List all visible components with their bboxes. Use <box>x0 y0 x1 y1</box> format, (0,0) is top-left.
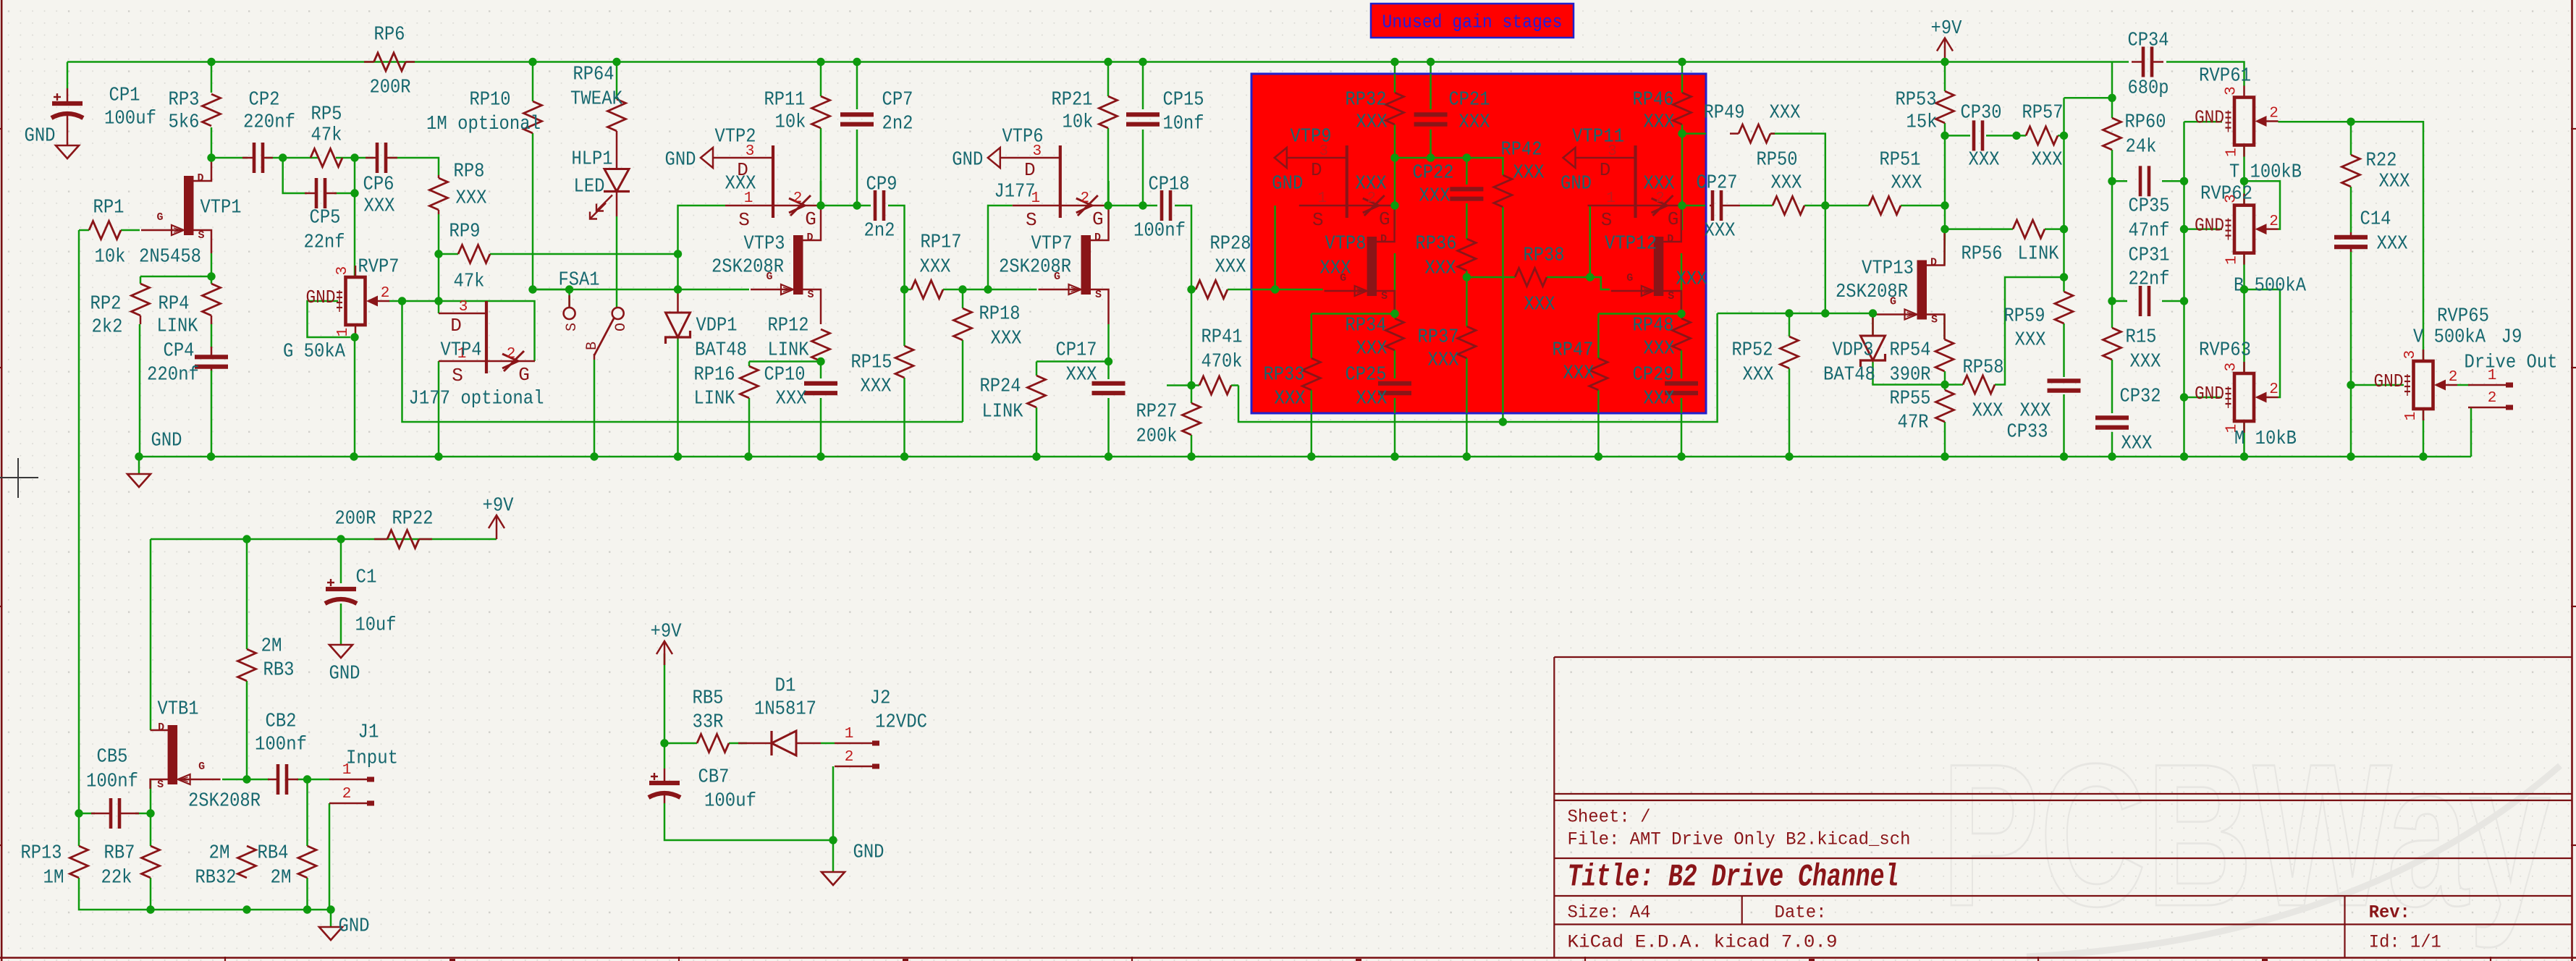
potentiometer RVP7 <box>306 266 390 336</box>
svg-text:RP46: RP46 <box>1633 89 1674 111</box>
svg-text:D: D <box>1094 232 1101 244</box>
svg-text:VTP7: VTP7 <box>1031 233 1073 255</box>
label J1 <box>346 721 398 769</box>
wire RB7 top <box>150 813 152 846</box>
svg-text:CP33: CP33 <box>2007 421 2048 443</box>
svg-text:S: S <box>1095 289 1102 301</box>
resistor RP59 <box>2055 292 2073 323</box>
label CP34 <box>2128 30 2169 99</box>
svg-text:XXX: XXX <box>1676 268 1707 290</box>
wire row400 a <box>533 289 678 291</box>
wire RP15 bottom <box>903 378 905 457</box>
wire VTP12 S down <box>1681 253 1683 314</box>
label CP5 <box>304 207 345 253</box>
svg-text:CB7: CB7 <box>698 766 730 788</box>
transistor VTP2 <box>665 143 822 231</box>
svg-text:XXX: XXX <box>1644 173 1675 195</box>
label RP50 <box>1757 149 1802 194</box>
svg-text:XXX: XXX <box>725 173 756 195</box>
connector J2 <box>835 726 879 766</box>
svg-text:1M optional: 1M optional <box>426 114 541 135</box>
svg-text:XXX: XXX <box>991 328 1022 350</box>
wire RB7 bottom <box>150 878 152 910</box>
svg-text:15k: 15k <box>1906 111 1938 133</box>
svg-text:RP49: RP49 <box>1704 102 1745 124</box>
wire VTP11 S loop <box>1589 206 1592 277</box>
svg-text:RP53: RP53 <box>1896 89 1937 111</box>
svg-text:GND: GND <box>339 915 370 937</box>
wire VTP3 D join <box>820 181 822 206</box>
wire RP33 bottom <box>1311 390 1313 457</box>
svg-text:5k6: 5k6 <box>169 111 200 133</box>
potentiometer RVP62 <box>2195 194 2279 265</box>
label VTP1 <box>139 197 242 268</box>
svg-text:RP64: RP64 <box>573 64 615 85</box>
resistor RP27 <box>1183 403 1201 435</box>
svg-text:2SK208R: 2SK208R <box>188 790 261 812</box>
resistor R15 <box>2103 328 2121 360</box>
wire CP33 bottom <box>2063 394 2065 457</box>
wire VTP6 S loop <box>988 206 1013 289</box>
wire CP15 bottom <box>1142 130 1144 206</box>
transistor VTP6 <box>952 143 1109 231</box>
resistor RB4 <box>298 846 316 878</box>
label D1 <box>754 675 816 720</box>
capacitor CP9 <box>875 190 884 221</box>
wire RP10 bottom <box>532 133 534 289</box>
capacitor CP4 <box>195 347 228 371</box>
wire RVP62 pin3 <box>2243 181 2245 205</box>
resistor RP55 <box>1936 390 1954 422</box>
wire RP11 top <box>820 62 822 97</box>
label J2 <box>870 687 928 733</box>
svg-text:390R: 390R <box>1890 364 1931 386</box>
wire second bus right <box>1238 313 1718 422</box>
svg-text:G: G <box>156 211 163 224</box>
svg-text:Size: A4: Size: A4 <box>1568 902 1651 923</box>
svg-text:2: 2 <box>2269 213 2279 230</box>
wire CP32 bottom <box>2111 432 2113 457</box>
wire VTP4 D drop <box>438 301 440 313</box>
label CB5 <box>86 746 138 792</box>
wire col2522 <box>1825 206 1827 313</box>
wire RP15 top <box>903 289 905 346</box>
capacitor CP22 <box>1450 189 1483 198</box>
svg-text:RP9: RP9 <box>449 221 481 242</box>
wire RP52 bottom <box>1789 368 1791 457</box>
net label GND J1 <box>339 915 370 937</box>
wire CP22 to RP36 <box>1466 203 1468 239</box>
svg-text:D: D <box>1667 233 1673 245</box>
resistor RP15 <box>895 346 913 378</box>
capacitor CP7 <box>840 114 874 124</box>
wire RP42 down <box>1502 207 1504 422</box>
wire CP17 top <box>1107 362 1110 380</box>
title block text Sheet <box>1568 807 1651 828</box>
label VDP3 <box>1823 339 1875 386</box>
sheet center marker <box>0 458 38 498</box>
label CB7 <box>698 766 757 812</box>
svg-text:2: 2 <box>793 190 803 207</box>
wire RP1 left <box>79 229 89 232</box>
svg-text:D: D <box>1600 159 1611 181</box>
title block text File <box>1568 829 1911 850</box>
label CP4 <box>147 340 199 386</box>
svg-text:1: 1 <box>2224 148 2241 157</box>
svg-text:XXX: XXX <box>1644 111 1675 133</box>
net GND label <box>25 125 56 147</box>
label R15 <box>2126 326 2161 373</box>
wire CP25 bottom <box>1394 398 1396 457</box>
svg-text:CB5: CB5 <box>97 746 128 768</box>
capacitor CP6 <box>366 143 397 173</box>
svg-text:XXX: XXX <box>2121 433 2153 454</box>
wire RP27 bottom <box>1191 435 1193 457</box>
wires inside box <box>1251 74 1706 413</box>
svg-text:G 50kA: G 50kA <box>283 341 346 363</box>
svg-text:+9V: +9V <box>651 621 683 643</box>
capacitor CP30 <box>1974 120 1982 151</box>
svg-text:RP51: RP51 <box>1880 149 1921 171</box>
svg-text:XXX: XXX <box>2015 329 2046 351</box>
wire RP2 branch <box>140 276 211 278</box>
svg-text:Drive Out: Drive Out <box>2465 352 2558 373</box>
svg-text:RP34: RP34 <box>1346 315 1387 336</box>
wire RP41 lead r <box>1231 384 1238 386</box>
svg-text:XXX: XXX <box>1320 258 1351 279</box>
svg-text:XXX: XXX <box>1972 400 2003 422</box>
svg-text:XXX: XXX <box>1513 162 1545 184</box>
wire R22 to C14 <box>2350 187 2352 232</box>
svg-text:S: S <box>1931 314 1938 326</box>
svg-text:1: 1 <box>1317 190 1327 207</box>
svg-text:VTP4: VTP4 <box>441 339 482 361</box>
label FSA1 <box>559 269 600 291</box>
label RP10 <box>426 89 541 135</box>
power symbol +9V <box>1931 18 1963 62</box>
wire col2918 mid <box>2111 181 2113 301</box>
label RP18 <box>979 303 1022 350</box>
wire RP56 right <box>2045 228 2064 230</box>
svg-text:22nf: 22nf <box>304 232 345 253</box>
wire FSA1 B down <box>594 360 596 457</box>
svg-text:RB7: RB7 <box>104 842 135 864</box>
label RP13 <box>21 842 64 889</box>
svg-text:22k: 22k <box>101 867 132 889</box>
capacitor CP33 <box>2048 381 2081 390</box>
capacitor CB2 <box>268 764 298 795</box>
resistor RP36 <box>1458 239 1476 271</box>
wire RVP63 mount <box>2184 397 2223 399</box>
label CP33 <box>2007 400 2051 443</box>
svg-text:CP7: CP7 <box>882 89 913 111</box>
label CP29 <box>1633 364 1675 410</box>
svg-text:RP21: RP21 <box>1052 89 1093 111</box>
svg-text:D: D <box>1024 159 1036 181</box>
wire CP4 bottom <box>211 370 213 457</box>
svg-text:1N5817: 1N5817 <box>754 698 816 720</box>
svg-text:10k: 10k <box>1063 111 1094 133</box>
svg-text:XXX: XXX <box>1771 172 1802 194</box>
svg-text:RP15: RP15 <box>851 352 892 373</box>
highlight box unused gain stages <box>1251 74 1706 413</box>
svg-text:XXX: XXX <box>1891 172 1922 194</box>
svg-text:File: AMT Drive Only B2.kicad_: File: AMT Drive Only B2.kicad_sch <box>1568 829 1911 850</box>
svg-text:XXX: XXX <box>1356 338 1388 360</box>
resistor RB5 <box>697 734 729 753</box>
wire RP3 bottom <box>211 127 213 158</box>
label RP1 <box>93 197 126 268</box>
wire RB4 top <box>306 779 308 846</box>
svg-text:B: B <box>584 342 601 350</box>
label HLP1 <box>572 148 613 198</box>
wire CP5 right <box>334 192 355 195</box>
wire RP60 bottom <box>2111 150 2113 181</box>
svg-text:GND: GND <box>306 287 336 308</box>
svg-text:RP37: RP37 <box>1418 326 1459 348</box>
capacitor CP10 <box>804 384 837 393</box>
svg-text:1M: 1M <box>43 867 64 889</box>
svg-text:1: 1 <box>2403 412 2420 421</box>
svg-text:RVP7: RVP7 <box>358 256 400 278</box>
svg-text:XXX: XXX <box>1356 388 1388 410</box>
wire RP12 to CP10 <box>820 362 822 379</box>
label RP2 <box>90 293 123 338</box>
svg-text:+9V: +9V <box>483 495 515 517</box>
wire bottom bus <box>79 878 331 910</box>
wire RP5-CP6 gap <box>336 157 373 159</box>
wire CP29 bottom <box>1681 398 1683 457</box>
svg-text:XXX: XXX <box>1215 256 1246 278</box>
wire J2 pin2 down <box>832 766 835 840</box>
svg-text:XXX: XXX <box>1969 149 2000 171</box>
transistor VTP3 <box>751 206 821 324</box>
svg-text:GND: GND <box>665 149 696 171</box>
label RP27 <box>1136 401 1178 447</box>
wire R22 top <box>2350 122 2352 155</box>
svg-text:HLP1: HLP1 <box>572 148 613 170</box>
wire RP21 top <box>1107 62 1110 97</box>
wire RP34 to CP25 <box>1394 350 1396 378</box>
svg-text:RP52: RP52 <box>1732 339 1773 361</box>
ground GND J2 <box>822 872 845 885</box>
wire RP51 left <box>1825 205 1869 207</box>
svg-text:KiCad E.D.A. kicad 7.0.9: KiCad E.D.A. kicad 7.0.9 <box>1568 932 1838 953</box>
resistor RP50 <box>1773 197 1804 215</box>
wire RP24 bottom <box>1036 407 1038 457</box>
resistor RB3 <box>238 649 256 681</box>
svg-text:VTP8: VTP8 <box>1325 233 1367 255</box>
wire RVP61 mount <box>2184 121 2223 123</box>
title block text KiCad <box>1568 932 1838 953</box>
wire CP30-RP57 <box>1986 135 2026 137</box>
wire RP33 branch <box>1312 313 1395 315</box>
label CP25 <box>1346 364 1388 410</box>
svg-text:200R: 200R <box>335 508 376 530</box>
svg-text:2n2: 2n2 <box>864 220 895 242</box>
wire B to M wiper <box>2245 289 2281 397</box>
svg-text:GND: GND <box>329 663 360 685</box>
label VTP7 <box>999 233 1073 278</box>
wire CP27-RP50 <box>1740 205 1773 207</box>
wire CB2 left <box>247 779 269 781</box>
resistor RP8 <box>430 175 448 214</box>
resistor RP21 <box>1099 96 1118 128</box>
resistor RP4 <box>203 284 221 324</box>
svg-text:2: 2 <box>2269 106 2279 122</box>
svg-text:CP6: CP6 <box>363 174 394 195</box>
resistor RP28 <box>1196 281 1228 299</box>
wire J9 pin2 down <box>2470 407 2472 457</box>
label VTP8 <box>1320 233 1367 279</box>
label RVP62 <box>2200 183 2307 297</box>
wire CP7 top <box>856 62 858 110</box>
resistor RP47 <box>1589 358 1608 390</box>
wire col2852 mid <box>2063 135 2065 277</box>
svg-text:2SK208R: 2SK208R <box>1836 281 1908 303</box>
wire RP24 top <box>1036 362 1038 376</box>
label R22 <box>2366 150 2410 192</box>
capacitor CP17 <box>1092 384 1126 393</box>
label VDP1 <box>695 315 747 361</box>
label CP10 <box>764 364 807 410</box>
svg-text:D1: D1 <box>775 675 796 697</box>
svg-text:100nf: 100nf <box>1133 220 1186 242</box>
svg-text:RP3: RP3 <box>169 89 200 111</box>
svg-text:10uf: 10uf <box>355 614 397 636</box>
wire VTP13 D <box>1943 229 1946 265</box>
resistor RP34 <box>1386 318 1404 350</box>
wire row284 b <box>1108 205 1157 207</box>
label RP3 <box>169 89 200 133</box>
wire CP7 bottom <box>856 130 858 206</box>
wire 9V to CB7 <box>664 653 666 769</box>
resistor RP16 <box>740 366 759 398</box>
label RP51 <box>1880 149 1922 194</box>
resistor RP10 <box>524 101 542 133</box>
label VTP13 <box>1836 258 1914 303</box>
transistor VTP4 <box>439 299 535 386</box>
wire CP6/CP5 junction to RVP7 <box>354 158 356 265</box>
wire R15 top <box>2111 301 2113 328</box>
label RP22 <box>335 508 434 530</box>
svg-text:XXX: XXX <box>2379 171 2410 192</box>
svg-text:XXX: XXX <box>2020 400 2051 422</box>
wire RP46 top <box>1681 62 1684 93</box>
svg-text:10k: 10k <box>775 111 806 133</box>
connector J9 <box>2468 368 2513 407</box>
label CP22 <box>1413 162 1454 207</box>
svg-text:G: G <box>1379 208 1390 230</box>
net label GND J2 <box>853 842 884 863</box>
label RP47 <box>1553 339 1595 384</box>
svg-text:XXX: XXX <box>2130 351 2161 373</box>
wire VTP8 D join <box>1394 206 1396 230</box>
resistor RP12 <box>812 329 830 361</box>
capacitor CP15 <box>1126 114 1160 124</box>
svg-text:V 500kA: V 500kA <box>2413 326 2486 348</box>
wire RP16 bottom <box>748 398 751 457</box>
wire CB5 right <box>135 813 151 815</box>
capacitor CP2 <box>242 143 273 173</box>
wire CP9 right down <box>888 206 905 289</box>
svg-text:100uf: 100uf <box>104 108 156 130</box>
title block <box>1554 657 2572 958</box>
wire CP2 left <box>211 157 248 159</box>
svg-text:GND: GND <box>1272 173 1303 195</box>
svg-text:2: 2 <box>2488 390 2497 407</box>
wire GND sym stub <box>138 457 140 473</box>
svg-text:D: D <box>1311 159 1322 181</box>
wire RP59 to CP33 <box>2063 323 2065 377</box>
wire RP16 branch <box>749 360 821 363</box>
label RP42 <box>1501 139 1545 184</box>
svg-text:CP4: CP4 <box>164 340 195 362</box>
svg-text:2N5458: 2N5458 <box>139 246 201 268</box>
transistor VTP8 <box>1325 206 1395 314</box>
resistor RP53 <box>1936 91 1954 123</box>
resistor RP41 <box>1199 376 1231 394</box>
svg-text:Title: B2 Drive Channel: Title: B2 Drive Channel <box>1568 860 1899 896</box>
wire RP47 top <box>1597 314 1600 359</box>
capacitor CP25 <box>1378 384 1411 393</box>
svg-text:RP48: RP48 <box>1633 315 1674 336</box>
title block text Id <box>2369 932 2441 953</box>
wire RP3 top <box>211 62 213 93</box>
svg-text:D: D <box>158 721 164 734</box>
capacitor CP34 <box>2132 47 2163 77</box>
wire RP47 bottom <box>1597 390 1600 457</box>
wire RP38 left <box>1466 276 1515 279</box>
svg-text:S: S <box>157 779 164 791</box>
wire RP37 bottom <box>1466 358 1468 457</box>
label VTP9 <box>1291 126 1387 195</box>
label RP48 <box>1633 315 1675 360</box>
svg-text:2: 2 <box>1080 190 1089 207</box>
svg-text:RVP62: RVP62 <box>2200 183 2252 205</box>
resistor RB32 <box>238 846 256 878</box>
label RVP61 <box>2199 65 2302 183</box>
wire RB4 bottom <box>306 878 308 910</box>
wire FSA1 S stub <box>533 289 570 308</box>
label CP1 <box>104 85 156 130</box>
wire RP48 to CP29 <box>1681 350 1683 378</box>
svg-text:O: O <box>613 323 630 331</box>
wire RP54 top <box>1943 315 1946 340</box>
svg-text:470k: 470k <box>1202 351 1243 373</box>
svg-text:CP29: CP29 <box>1633 364 1674 386</box>
wire RP41 lead l <box>1191 384 1199 386</box>
resistor RP46 <box>1673 93 1692 124</box>
wire RB3 top <box>246 539 248 649</box>
svg-text:J9: J9 <box>2501 326 2522 348</box>
wire RP60 topl <box>2111 98 2113 118</box>
label RP56 <box>1961 243 2060 265</box>
wire CP34 branch <box>2111 62 2113 98</box>
wire VTB1 S down <box>150 779 152 813</box>
svg-text:S: S <box>1312 209 1324 231</box>
label RP57 <box>2022 102 2064 171</box>
wire VDP3 to node <box>1873 362 1946 385</box>
wire CP34 to RVP61 <box>2166 62 2245 87</box>
svg-text:2: 2 <box>2449 369 2458 386</box>
svg-text:47k: 47k <box>454 271 485 292</box>
wire CP18 right down <box>1175 206 1191 289</box>
label RP54 <box>1890 339 1931 386</box>
wire RVP7 wiper row <box>389 300 439 302</box>
svg-text:LINK: LINK <box>694 388 736 410</box>
svg-text:RP6: RP6 <box>374 24 405 46</box>
